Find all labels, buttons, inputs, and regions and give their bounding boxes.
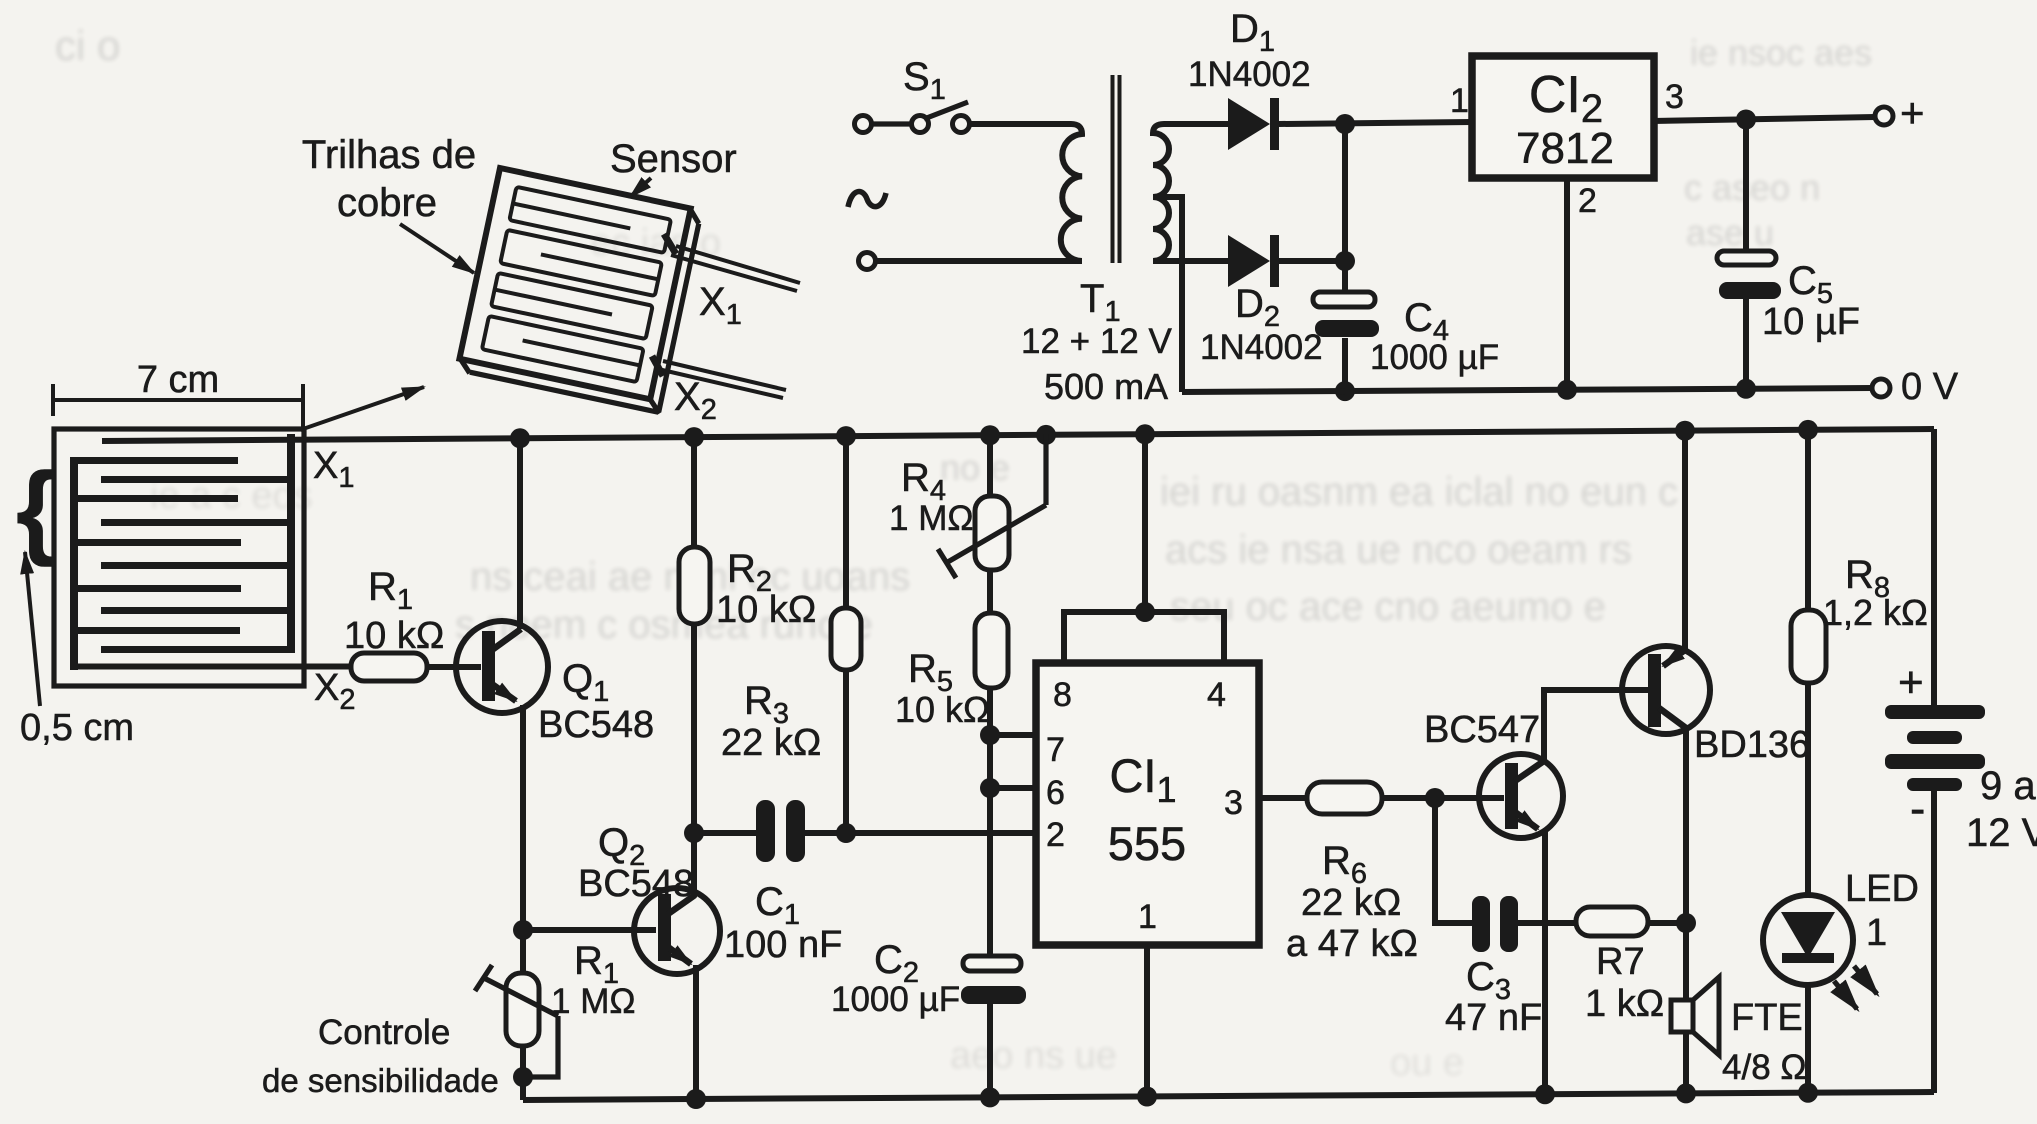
arrow 0,5 cm	[25, 552, 40, 706]
wire secondary center tap to 0V	[1153, 197, 1182, 392]
capacitor C3	[1472, 896, 1518, 952]
svg-text:no e: no e	[940, 447, 1010, 488]
svg-text:a 47 kΩ: a 47 kΩ	[1286, 923, 1418, 965]
svg-text:BC548: BC548	[538, 704, 654, 746]
svg-text:2: 2	[1578, 182, 1597, 220]
node top rail x694 (R2)	[684, 427, 704, 447]
node bottom rail x1686 (speaker)	[1676, 1083, 1696, 1103]
svg-text:47 nF: 47 nF	[1445, 997, 1542, 1039]
wire Q1 collector to rail	[517, 437, 523, 629]
node R6 right / C3 branch	[1425, 788, 1445, 808]
node C5 bottom	[1736, 379, 1756, 399]
wire X2 to R1	[70, 664, 351, 670]
node top rail x1048 (R4 wiper)	[1036, 425, 1056, 445]
transformer T1 core	[1113, 75, 1120, 263]
svg-text:1: 1	[1138, 898, 1157, 936]
wire node down to C3	[1435, 798, 1472, 923]
svg-text:1,2 kΩ: 1,2 kΩ	[1823, 592, 1928, 633]
svg-text:aeo ns ue: aeo ns ue	[950, 1035, 1117, 1077]
svg-text:0 V: 0 V	[1901, 366, 1959, 408]
svg-text:1 kΩ: 1 kΩ	[1585, 983, 1664, 1025]
svg-text:1 MΩ: 1 MΩ	[889, 499, 974, 538]
LED light arrows	[1834, 966, 1877, 1009]
capacitor C4	[1313, 124, 1379, 392]
transistor Q1 BC548	[456, 621, 548, 713]
terminal 0 V	[1872, 379, 1890, 397]
svg-text:8: 8	[1053, 676, 1072, 714]
node top rail x1685 (BD136)	[1675, 421, 1695, 441]
svg-text:1: 1	[1866, 912, 1887, 954]
wire BC547 collector to BD136 base	[1544, 690, 1648, 762]
node Q1 emitter / Q2 base	[513, 920, 533, 940]
wire BD136 emitter to rail	[1682, 430, 1688, 650]
node D2 cathode junction	[1335, 251, 1355, 271]
svg-text:R7: R7	[1596, 941, 1645, 983]
wire +V top rail	[102, 429, 1934, 441]
svg-text:1N4002: 1N4002	[1200, 328, 1323, 367]
switch S1	[855, 102, 970, 133]
svg-text:ou e: ou e	[1390, 1042, 1464, 1084]
wire CI2 pin2 to 0V	[1564, 178, 1570, 391]
IC CI1 555	[1036, 663, 1259, 945]
node top rail x990 (R4)	[980, 425, 1000, 445]
wire Q2 emitter down	[693, 965, 699, 1100]
capacitor C2	[961, 956, 1026, 1098]
node top rail x1808 (R8)	[1798, 420, 1818, 440]
wire C1 to 555 pin 2	[805, 830, 1036, 836]
svg-text:BC547: BC547	[1424, 709, 1540, 751]
node bracket center	[1135, 602, 1155, 622]
svg-text:22 kΩ: 22 kΩ	[721, 722, 821, 764]
svg-text:12 + 12 V: 12 + 12 V	[1021, 322, 1172, 361]
wire Q2 base	[523, 927, 656, 933]
svg-text:7: 7	[1046, 731, 1065, 769]
wire 555 pin3 to R6	[1259, 795, 1307, 801]
svg-text:0,5 cm: 0,5 cm	[20, 707, 134, 749]
svg-text:BD136: BD136	[1694, 724, 1810, 766]
svg-text:+: +	[1898, 658, 1924, 707]
node bottom rail x696 (Q2 emitter)	[686, 1089, 706, 1109]
svg-text:10 kΩ: 10 kΩ	[716, 589, 816, 631]
node pin7 junction	[980, 725, 1000, 745]
node bottom rail x1545 (BC547 emitter)	[1535, 1084, 1555, 1104]
AC terminal lower	[859, 253, 876, 270]
transformer T1 secondary	[1153, 124, 1228, 261]
sensor PCB (tilted)	[457, 168, 703, 414]
svg-text:BC548: BC548	[578, 863, 694, 905]
arrow to sensor	[630, 178, 651, 197]
wire ground bottom rail	[523, 1092, 1934, 1100]
svg-text:3: 3	[1224, 784, 1243, 822]
svg-text:1000 µF: 1000 µF	[1370, 338, 1499, 377]
svg-text:ie nsoc aes: ie nsoc aes	[1690, 32, 1872, 73]
arrow from dimension to sensor symbol	[303, 387, 424, 429]
resistor R2	[679, 436, 710, 833]
sensor grid symbol (comb electrodes)	[54, 429, 304, 686]
wire Q1 emitter down	[520, 705, 526, 973]
node top rail x846 (R3)	[836, 426, 856, 446]
wire BC547 emitter to ground	[1542, 831, 1548, 1095]
regulator CI2 7812	[1472, 56, 1654, 178]
svg-text:c aseo n: c aseo n	[1684, 167, 1820, 208]
node pin6 junction	[980, 778, 1000, 798]
wire R1 to Q1 base	[427, 664, 481, 670]
resistor R1 10k	[351, 653, 427, 681]
dimension 7 cm	[53, 359, 303, 416]
wire to pin 6	[990, 785, 1036, 791]
svg-text:1 MΩ: 1 MΩ	[551, 982, 636, 1021]
svg-text:1000 µF: 1000 µF	[831, 980, 960, 1019]
svg-text:LED: LED	[1845, 868, 1919, 910]
capacitor C5	[1717, 119, 1781, 390]
terminal + output	[1875, 107, 1893, 125]
svg-text:cobre: cobre	[337, 181, 437, 225]
wire lead X2 of sensor	[658, 361, 786, 398]
wire node to C1	[694, 830, 756, 836]
label Trilhas de cobre	[302, 133, 476, 225]
node R7 / speaker line	[1676, 913, 1696, 933]
potentiometer R4 1M	[938, 434, 1046, 613]
svg-text:+: +	[1900, 89, 1925, 136]
potentiometer R1 1M sensitivity	[475, 965, 558, 1100]
LED 1	[1763, 895, 1853, 1093]
node top rail x1145 (555 pins 8-4)	[1135, 424, 1155, 444]
svg-text:10 kΩ: 10 kΩ	[895, 689, 990, 730]
node C4 bottom	[1335, 381, 1355, 401]
node pot wiper junction	[513, 1067, 533, 1087]
node top rail x518 (Q1 collector)	[510, 428, 530, 448]
solder tab X2	[652, 356, 663, 376]
wire BD136 collector down	[1683, 728, 1689, 1000]
transistor BD136	[1622, 646, 1710, 734]
svg-text:{: {	[16, 452, 56, 568]
node R3 bottom	[836, 823, 856, 843]
wire 555 pin1 to ground	[1144, 945, 1150, 1097]
svg-text:Trilhas de: Trilhas de	[302, 133, 476, 177]
wire 555 pins 8-4 bracket	[1064, 612, 1224, 663]
svg-text:acs ie nsa ue nco oeam rs: acs ie nsa ue nco oeam rs	[1165, 528, 1632, 572]
speaker FTE	[1671, 977, 1719, 1094]
svg-text:4: 4	[1207, 676, 1226, 714]
node R2 bottom / C1 / Q2 collector	[684, 823, 704, 843]
transistor BC547	[1479, 754, 1563, 838]
svg-text:Controle: Controle	[318, 1013, 450, 1052]
node CI2 pin2 at 0V	[1557, 380, 1577, 400]
svg-text:2: 2	[1046, 816, 1065, 854]
wire bracket to rail	[1142, 433, 1148, 612]
svg-text:1N4002: 1N4002	[1188, 55, 1311, 94]
svg-text:9 a: 9 a	[1980, 764, 2036, 808]
svg-text:de sensibilidade: de sensibilidade	[262, 1062, 499, 1099]
resistor R8	[1791, 429, 1826, 895]
svg-text:FTE: FTE	[1731, 997, 1803, 1039]
node C5 top	[1736, 110, 1756, 130]
wire lead X1 of sensor	[671, 246, 800, 291]
svg-text:500 mA: 500 mA	[1044, 366, 1168, 407]
node bottom rail x990 (C2)	[980, 1087, 1000, 1107]
wire Q2 collector up	[691, 833, 697, 897]
node bottom rail x1147 (555 pin1)	[1137, 1087, 1157, 1107]
resistor R7	[1576, 907, 1648, 936]
svg-text:ase u: ase u	[1686, 212, 1774, 253]
svg-text:ci o: ci o	[55, 22, 120, 69]
svg-text:10 kΩ: 10 kΩ	[344, 615, 444, 657]
diode D1	[1228, 98, 1472, 150]
wire to pin 7	[990, 732, 1036, 738]
svg-text:555: 555	[1108, 817, 1186, 870]
svg-text:seu oc ace cno aeumo e: seu oc ace cno aeumo e	[1170, 585, 1606, 629]
svg-text:iei ru oasnm ea iclal no eun c: iei ru oasnm ea iclal no eun c	[1160, 470, 1678, 514]
node bottom rail x1808 (LED)	[1798, 1083, 1818, 1103]
svg-text:Sensor: Sensor	[610, 137, 737, 181]
AC symbol	[848, 192, 886, 207]
node D1 cathode junction	[1335, 114, 1355, 134]
svg-text:10 µF: 10 µF	[1762, 301, 1860, 343]
svg-text:4/8 Ω: 4/8 Ω	[1722, 1048, 1807, 1087]
svg-text:22 kΩ: 22 kΩ	[1301, 882, 1401, 924]
capacitor C1	[756, 800, 805, 862]
diode D2	[1228, 235, 1345, 287]
svg-text:12 V: 12 V	[1966, 811, 2037, 855]
solder tab X1	[664, 234, 676, 254]
transformer T1 primary	[970, 124, 1082, 261]
wire C3 to R7	[1518, 920, 1576, 926]
arrow to copper tracks	[400, 224, 474, 273]
svg-text:7812: 7812	[1516, 124, 1614, 173]
svg-text:-: -	[1910, 782, 1925, 834]
svg-text:6: 6	[1046, 774, 1065, 812]
svg-text:1: 1	[1450, 82, 1469, 120]
wire CI2 pin3 to + terminal	[1652, 117, 1875, 121]
resistor R3	[831, 435, 861, 833]
battery 9-12V	[1885, 429, 1985, 1093]
wire R7 to speaker line	[1648, 920, 1686, 926]
resistor R5	[975, 613, 1008, 956]
svg-text:7 cm: 7 cm	[137, 359, 219, 401]
wire R6 to BC547 base	[1382, 795, 1504, 801]
wire 0V rail	[1182, 388, 1872, 392]
transistor Q2 BC548	[634, 888, 720, 974]
wire AC lower to transformer	[876, 258, 1082, 264]
svg-text:3: 3	[1665, 78, 1684, 116]
resistor R6	[1307, 782, 1382, 814]
svg-text:100 nF: 100 nF	[724, 924, 842, 966]
